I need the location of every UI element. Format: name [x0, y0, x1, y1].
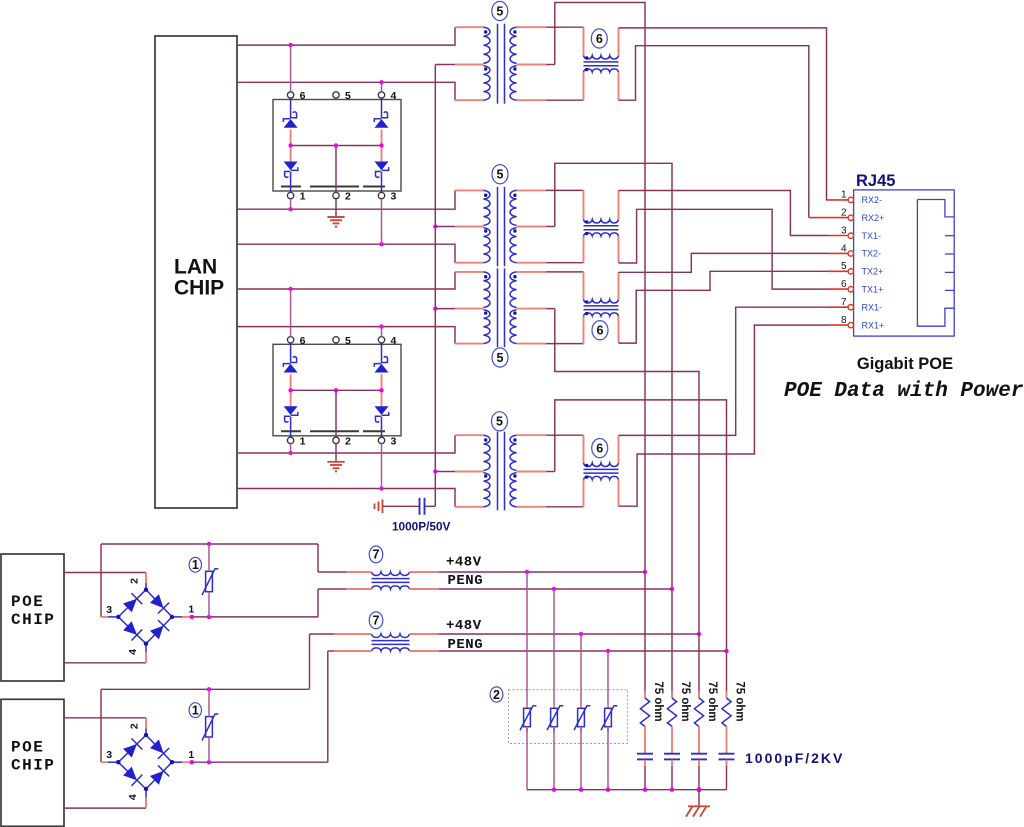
- svg-text:TX2+: TX2+: [862, 267, 884, 277]
- wire CM2 out to RJ45 pin3: [619, 191, 849, 236]
- DA2 internal common rail: [288, 388, 383, 437]
- wire LAN TRD1+ to transformer primary: [237, 190, 484, 211]
- svg-text:6: 6: [300, 335, 306, 347]
- wire DA1 pin4 to line: [381, 82, 383, 92]
- wire POE2 bridge out: [182, 760, 328, 764]
- svg-text:PENG: PENG: [448, 637, 484, 653]
- label PENG 2: [448, 637, 484, 653]
- wire DA1 pin6 to line: [290, 45, 292, 92]
- svg-text:TX2-: TX2-: [862, 249, 882, 259]
- wire PENG net 2: [410, 649, 727, 653]
- svg-text:5: 5: [345, 90, 351, 102]
- wire LAN TRD2+ to transformer primary: [237, 272, 484, 291]
- ground for DA1: [327, 199, 344, 227]
- svg-text:+48V: +48V: [446, 618, 482, 634]
- label 1 for RV2: [189, 703, 201, 718]
- wire LAN TRD1- to transformer primary: [237, 242, 484, 263]
- svg-text:5: 5: [345, 335, 351, 347]
- svg-text:4: 4: [127, 649, 139, 655]
- J1 pin 8 RX1+: [841, 315, 884, 330]
- svg-text:75 ohm: 75 ohm: [734, 681, 746, 721]
- svg-text:3: 3: [106, 604, 112, 616]
- resistor R2 75 ohm: [667, 681, 691, 726]
- svg-text:1: 1: [300, 435, 306, 447]
- DA1 pin 6: [287, 90, 305, 102]
- resistor R1 75 ohm: [640, 681, 664, 726]
- svg-text:7: 7: [841, 297, 847, 308]
- J1 pin 4 TX2-: [841, 243, 881, 258]
- svg-text:2: 2: [129, 723, 141, 729]
- wire T1 sec bottom to CM1: [517, 72, 584, 100]
- bridge rectifier BR2: [106, 723, 194, 800]
- wire +48V net 1: [410, 570, 646, 574]
- choke CM1: [584, 56, 619, 73]
- svg-text:5: 5: [841, 261, 847, 272]
- capacitor C3 1000pF: [691, 727, 707, 790]
- svg-text:5: 5: [497, 168, 504, 182]
- svg-text:1: 1: [188, 604, 194, 616]
- J1 pin 6 TX1+: [841, 279, 883, 294]
- svg-text:TX1+: TX1+: [862, 285, 884, 295]
- varistor RV3: [520, 572, 536, 790]
- wire DA1 pin1 to line: [290, 199, 292, 209]
- svg-text:RX2-: RX2-: [862, 195, 883, 205]
- svg-text:POE: POE: [11, 738, 44, 756]
- label 5 for T1: [492, 1, 508, 20]
- wire CM2 out to RJ45 pin6: [619, 209, 849, 289]
- svg-text:4: 4: [841, 243, 847, 254]
- wire DA1 pin3 to line: [381, 199, 383, 244]
- wire T4 sec center to R4 node: [517, 400, 729, 698]
- transformer T4: [484, 432, 517, 511]
- wire CM4 out to RJ45 pin7: [619, 307, 849, 463]
- svg-text:1: 1: [192, 703, 199, 717]
- choke L7a: [372, 572, 410, 589]
- J1 pin 7 RX1-: [841, 297, 882, 312]
- capacitor C5 1000P/50V: [383, 498, 451, 534]
- wire L7b inputs: [310, 634, 372, 651]
- svg-text:CHIP: CHIP: [174, 277, 224, 300]
- svg-text:CHIP: CHIP: [11, 611, 55, 629]
- DA1 internal common rail: [288, 143, 383, 192]
- TVS diode pair in DA2 column x=290.6: [283, 344, 297, 438]
- ground for DA2: [327, 444, 344, 472]
- wire T1 sec center to R1 node: [517, 3, 648, 699]
- bridge rectifier BR1: [106, 578, 194, 655]
- capacitor C1 1000pF: [637, 727, 653, 790]
- svg-text:CHIP: CHIP: [11, 756, 55, 774]
- POE chip U3: [1, 699, 64, 826]
- wire PENG net 1: [410, 587, 673, 591]
- svg-text:6: 6: [597, 324, 604, 338]
- label Gigabit POE: [857, 355, 953, 373]
- wire DA2 pin6 to line: [290, 289, 292, 337]
- svg-text:RX1+: RX1+: [862, 320, 885, 330]
- wire POE1 chip to bridge AC bottom: [64, 652, 146, 662]
- label 1000pF/2KV: [745, 750, 844, 766]
- label +48V 2: [446, 618, 482, 634]
- svg-text:3: 3: [841, 225, 847, 236]
- wire T2 sec top to CM2: [517, 190, 584, 219]
- J1 pin 2 RX2+: [841, 208, 884, 223]
- varistor RV6: [601, 651, 617, 790]
- wire LAN TRD2- to transformer primary: [237, 324, 484, 343]
- choke L7b: [372, 634, 410, 651]
- DA1 pin 4: [378, 90, 396, 102]
- svg-text:POE Data with Power: POE Data with Power: [784, 380, 1024, 403]
- wire LAN TRD0+ to transformer primary: [237, 27, 484, 47]
- wire BR2 out to L7b: [327, 651, 329, 762]
- svg-text:PENG: PENG: [448, 573, 484, 589]
- wire center tap stub: [435, 64, 483, 66]
- DA2 pin 4: [378, 335, 396, 347]
- wire rail1 to L7a: [317, 544, 319, 572]
- svg-text:2: 2: [493, 688, 500, 702]
- svg-text:1: 1: [841, 190, 847, 201]
- DA1 pin 3: [378, 191, 396, 203]
- wire LAN TRD3+ to transformer primary: [237, 435, 484, 455]
- svg-text:75 ohm: 75 ohm: [706, 681, 718, 721]
- svg-text:1: 1: [300, 191, 306, 203]
- transformer T1: [484, 24, 517, 104]
- diode array DA2 package: [273, 344, 401, 436]
- wire center tap stub: [435, 308, 483, 310]
- label 6 for CM3: [592, 321, 608, 340]
- wire POE2 positive rail: [101, 687, 310, 762]
- wire T2 sec center to R2 node: [517, 163, 675, 698]
- svg-text:LAN: LAN: [174, 256, 217, 279]
- svg-text:2: 2: [345, 191, 351, 203]
- LAN chip U1: [155, 36, 237, 508]
- svg-text:6: 6: [841, 279, 847, 290]
- svg-text:Gigabit POE: Gigabit POE: [857, 355, 953, 373]
- svg-text:+48V: +48V: [446, 554, 482, 570]
- wire POE2 chip to bridge AC bottom: [64, 798, 146, 808]
- wire DA2 pin3 to line: [381, 444, 383, 489]
- ground chassis for C5: [375, 500, 383, 514]
- svg-text:1000pF/2KV: 1000pF/2KV: [745, 750, 844, 766]
- choke CM2: [584, 220, 619, 237]
- wire POE1 bridge out: [182, 615, 318, 619]
- svg-text:2: 2: [129, 578, 141, 584]
- resistor R4 75 ohm: [722, 681, 746, 726]
- svg-text:4: 4: [391, 335, 397, 347]
- svg-text:6: 6: [596, 441, 603, 455]
- choke CM4: [584, 463, 619, 480]
- svg-text:3: 3: [106, 749, 112, 761]
- wire DA2 pin1 to line: [290, 444, 292, 453]
- svg-text:3: 3: [391, 191, 397, 203]
- J1 pin 5 TX2+: [841, 261, 883, 276]
- DA1 pin 2: [333, 191, 351, 203]
- svg-text:POE: POE: [11, 593, 44, 611]
- wire T3 sec top to CM3: [517, 272, 584, 300]
- transformer T2: [484, 187, 517, 266]
- svg-text:5: 5: [497, 351, 504, 365]
- J1 pin 1 RX2-: [841, 190, 882, 205]
- svg-text:RJ45: RJ45: [856, 172, 895, 190]
- wire DA2 pin4 to line: [381, 327, 383, 337]
- svg-text:6: 6: [300, 90, 306, 102]
- label 6 for CM4: [592, 439, 608, 458]
- wire center tap stub: [435, 471, 483, 473]
- wire L7a inputs: [318, 572, 372, 589]
- J1 pin 3 TX1-: [841, 225, 881, 240]
- choke CM3: [584, 300, 619, 317]
- label 5 for T2: [492, 165, 508, 184]
- label 7 for L7a: [369, 546, 383, 563]
- wire primary center-tap rail (node CT): [433, 65, 437, 507]
- svg-text:RX2+: RX2+: [862, 213, 885, 223]
- svg-text:75 ohm: 75 ohm: [652, 681, 664, 721]
- wire T3 sec center to R3 node: [517, 309, 702, 698]
- resistor R3 75 ohm: [694, 681, 718, 726]
- wire bottom ground rail: [527, 787, 727, 792]
- svg-text:TX1-: TX1-: [862, 231, 882, 241]
- wire rail2 to L7b: [309, 634, 311, 689]
- wire +48V net 2: [410, 632, 700, 636]
- wire CM3 out to RJ45 pin5: [619, 271, 849, 343]
- wire POE1 positive rail: [101, 542, 318, 617]
- wire CM4 out to RJ45 pin8: [619, 325, 849, 506]
- svg-text:3: 3: [391, 435, 397, 447]
- label 1 for RV1: [189, 557, 201, 572]
- DA2 pin 1: [287, 435, 305, 447]
- svg-text:8: 8: [841, 315, 847, 326]
- connector J1 RJ45 body: [854, 190, 955, 336]
- svg-text:5: 5: [496, 415, 503, 429]
- wire T3 sec bottom to CM3: [517, 316, 584, 344]
- varistor RV4: [547, 589, 563, 790]
- label 6 for CM1: [591, 29, 607, 48]
- svg-text:7: 7: [373, 548, 380, 562]
- svg-text:1: 1: [192, 558, 199, 572]
- svg-text:1000P/50V: 1000P/50V: [392, 520, 451, 534]
- POE chip U2: [1, 554, 64, 681]
- diode array DA1 package: [273, 100, 401, 192]
- wire center tap stub: [435, 226, 483, 228]
- svg-text:4: 4: [391, 90, 397, 102]
- wire CM3 out to RJ45 pin4: [619, 253, 849, 299]
- DA1 pin 1: [287, 191, 305, 203]
- varistor RV1: [202, 544, 218, 617]
- varistor group dashed box: [509, 690, 628, 744]
- wire T4 sec top to CM4: [517, 435, 584, 463]
- wire BR1 out to L7a: [317, 589, 319, 617]
- DA2 pin 3: [378, 435, 396, 447]
- TVS diode pair in DA2 column x=381.5: [374, 344, 388, 438]
- DA1 pin 5: [333, 90, 351, 102]
- varistor RV5: [574, 634, 590, 790]
- wire POE2 chip to bridge AC top: [64, 718, 146, 729]
- wire POE1 chip to bridge AC top: [64, 573, 146, 584]
- wire CM1 out to RJ45 pin1: [619, 28, 849, 200]
- wire T4 sec bottom to CM4: [517, 480, 584, 507]
- ground chassis bottom: [686, 790, 710, 817]
- label RJ45: [856, 172, 895, 190]
- label PENG 1: [448, 573, 484, 589]
- label 5 for T3: [492, 348, 508, 367]
- varistor RV2: [202, 689, 218, 762]
- wire T1 sec top to CM1: [517, 27, 584, 55]
- wire CM1 out to RJ45 pin2: [619, 46, 849, 218]
- wire LAN TRD0- to transformer primary: [237, 80, 484, 100]
- label +48V 1: [446, 554, 482, 570]
- svg-text:4: 4: [127, 794, 139, 800]
- DA2 pin 6: [287, 335, 305, 347]
- svg-text:1: 1: [188, 749, 194, 761]
- transformer T3: [484, 268, 517, 347]
- TVS diode pair in DA1 column x=381.5: [374, 99, 388, 193]
- label 5 for T4: [492, 412, 508, 431]
- svg-text:75 ohm: 75 ohm: [679, 681, 691, 721]
- wire T2 sec bottom to CM2: [517, 236, 584, 263]
- capacitor C2 1000pF: [664, 727, 680, 790]
- capacitor C4 1000pF: [719, 727, 735, 790]
- DA2 pin 2: [333, 435, 351, 447]
- svg-text:2: 2: [841, 208, 847, 219]
- label 7 for L7b: [369, 612, 383, 629]
- TVS diode pair in DA1 column x=290.6: [283, 99, 297, 193]
- svg-text:7: 7: [373, 614, 380, 628]
- wire LAN TRD3- to transformer primary: [237, 486, 484, 507]
- label 2 for varistor group: [490, 687, 503, 702]
- DA2 pin 5: [333, 335, 351, 347]
- svg-text:6: 6: [596, 32, 603, 46]
- svg-text:5: 5: [496, 4, 503, 18]
- svg-text:2: 2: [345, 435, 351, 447]
- label POE Data with Power: [784, 380, 1024, 403]
- svg-text:RX1-: RX1-: [862, 302, 883, 312]
